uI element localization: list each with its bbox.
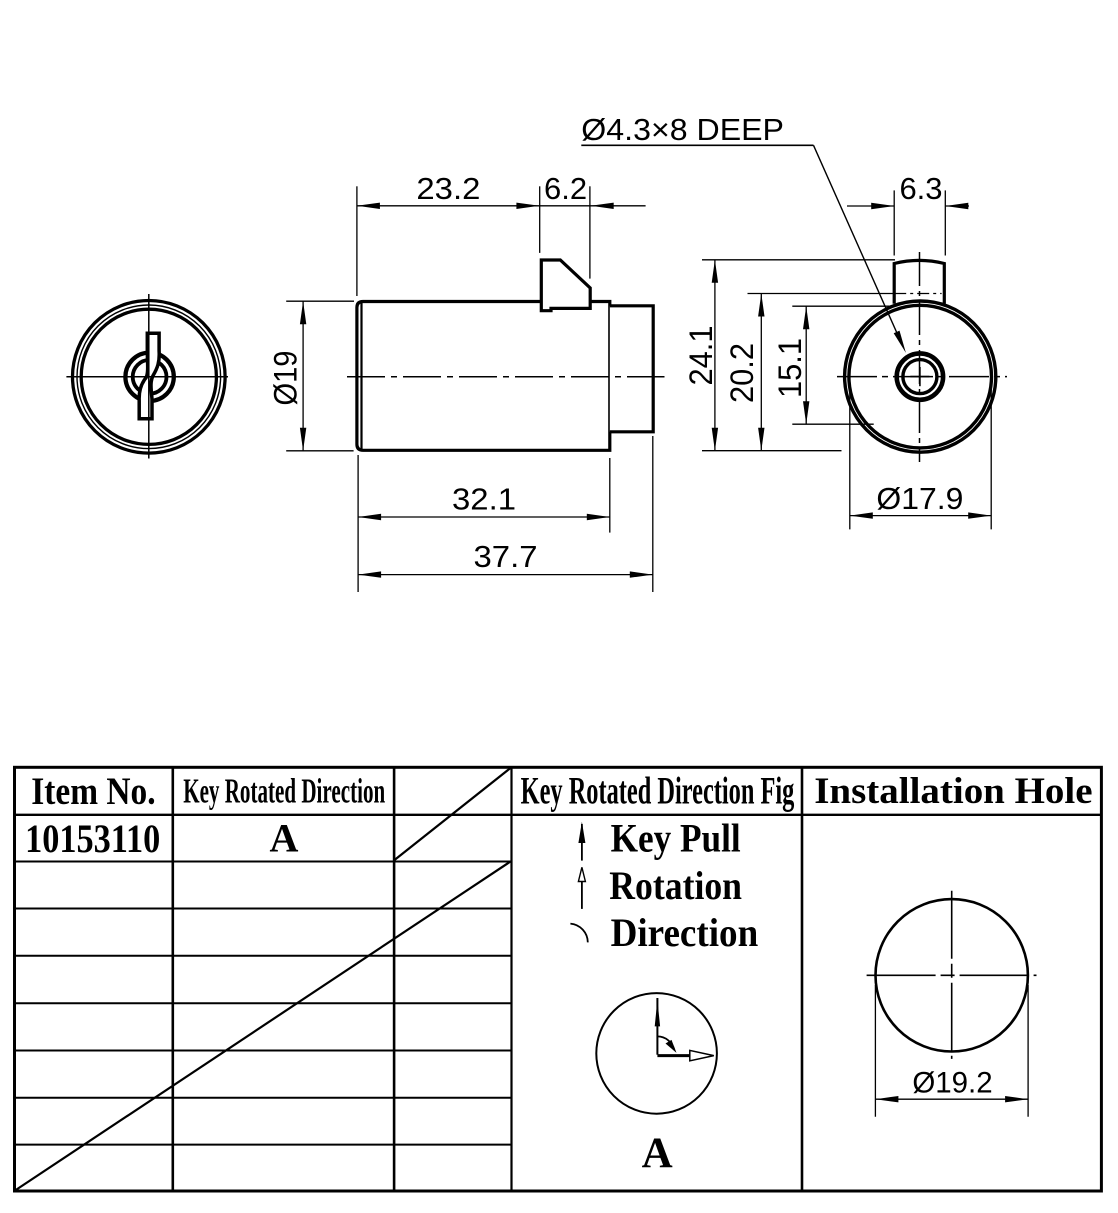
extension line left (32.1/37.7)	[357, 455, 359, 592]
extension line at body left (23.2)	[356, 186, 358, 296]
column border 4	[801, 767, 804, 1191]
arrowhead dia19 bottom	[300, 428, 306, 451]
extension line right (37.7)	[652, 436, 654, 592]
figure horizontal open arrowhead	[690, 1050, 714, 1060]
front view horizontal centerline	[66, 376, 228, 378]
side view cylinder body	[357, 302, 610, 451]
dimension line 20.2	[760, 294, 762, 451]
dimension line 6.3 right tail	[945, 205, 969, 207]
column border 1	[172, 767, 175, 1191]
svg-text:Key Rotated Direction Fig: Key Rotated Direction Fig	[521, 770, 795, 813]
rear view vertical centerline	[919, 252, 921, 462]
arrowhead 24.1 top	[712, 260, 718, 283]
svg-text:Rotation: Rotation	[609, 863, 742, 908]
figure vertical arrow line	[656, 998, 658, 1055]
installation hole vertical centerline	[951, 891, 953, 1059]
svg-text:Direction: Direction	[611, 910, 759, 955]
extension line at cam left (23.2/6.2)	[539, 186, 541, 253]
dimension line dia17.9	[850, 515, 991, 517]
rear view horizontal centerline	[837, 376, 1007, 378]
side view locking cam	[541, 260, 590, 311]
row line 2	[15, 861, 512, 863]
arrowhead 37.7 left	[358, 571, 381, 577]
extension line bottom (dia19)	[286, 450, 353, 452]
leader underline	[581, 144, 813, 146]
arrowhead 15.1 bottom	[803, 401, 809, 424]
svg-text:32.1: 32.1	[452, 481, 516, 516]
row line 6	[15, 1050, 512, 1052]
key pull arrow (solid)	[581, 824, 583, 861]
svg-text:Key Pull: Key Pull	[611, 816, 741, 861]
arrowhead 32.1 right	[587, 514, 610, 520]
row line 3	[15, 908, 512, 910]
extension line 6.3 left	[893, 190, 895, 255]
svg-text:A: A	[642, 1130, 673, 1177]
installation hole horizontal centerline	[867, 974, 1037, 976]
extension line 6.3 right	[944, 190, 946, 255]
svg-text:Ø17.9: Ø17.9	[876, 481, 963, 516]
extension line at cam right (6.2)	[589, 186, 591, 278]
figure vertical arrowhead (solid)	[655, 1000, 660, 1026]
arrowhead 20.2 top	[758, 294, 764, 317]
front view outer flange circle	[73, 301, 226, 454]
arrowhead dia19.2 left	[875, 1096, 898, 1102]
figure rotation arc	[657, 1036, 674, 1050]
rotation arrow (open)	[581, 878, 583, 909]
arrowhead dia19.2 right	[1005, 1096, 1028, 1102]
short diagonal slash	[395, 768, 511, 860]
dimension line 37.7	[358, 574, 653, 576]
figure horizontal arrow line	[657, 1054, 692, 1057]
key slot (S-shaped way)	[139, 333, 159, 418]
dimension line 6.3 left tail	[847, 205, 894, 207]
svg-text:24.1: 24.1	[683, 326, 719, 386]
side view body front edge line	[360, 303, 362, 450]
svg-text:Ø19: Ø19	[268, 351, 304, 406]
extension line dia19.2 right	[1027, 985, 1029, 1117]
dimension line 23.2 / 6.2	[357, 205, 646, 207]
leader arrowhead	[894, 331, 906, 353]
svg-text:Installation Hole: Installation Hole	[814, 771, 1092, 812]
extension line 20.2 top	[748, 293, 895, 295]
long diagonal slash	[15, 862, 511, 1191]
leader line	[814, 145, 903, 345]
arrowhead 15.1 top	[803, 306, 809, 329]
arrowhead dia17.9 left	[850, 512, 873, 518]
dimension line 15.1	[805, 306, 807, 424]
extension line dia17.9 right	[990, 380, 992, 529]
arrowhead 23.2 left	[357, 203, 380, 209]
arrowhead 24.1 bottom	[712, 428, 718, 451]
dimension line dia19.2	[875, 1098, 1028, 1100]
arrowhead 6.3 left	[871, 203, 894, 209]
direction arc symbol	[570, 924, 587, 943]
arrowhead dia19 top	[300, 301, 306, 324]
figure arc arrowhead	[666, 1040, 677, 1053]
extension line 15.1 bottom	[792, 423, 873, 425]
installation hole circle	[876, 899, 1028, 1051]
row line 8	[15, 1144, 512, 1146]
arrowhead 6.3 right	[945, 203, 968, 209]
svg-text:23.2: 23.2	[416, 171, 480, 206]
column border 3	[510, 767, 512, 1191]
svg-text:Ø4.3×8 DEEP: Ø4.3×8 DEEP	[581, 112, 784, 147]
svg-text:6.3: 6.3	[899, 171, 942, 206]
row line 4	[15, 955, 512, 957]
dimension line 24.1	[714, 260, 716, 451]
extension line 24.1/20.2 bottom	[702, 450, 842, 452]
row line 5	[15, 1002, 512, 1004]
svg-text:Ø19.2: Ø19.2	[912, 1067, 992, 1100]
front view vertical centerline	[148, 294, 150, 459]
arrowhead 6.2 right (outside)	[591, 203, 614, 209]
keyhole plug outer circle	[125, 353, 173, 401]
arrowhead dia17.9 right	[968, 512, 991, 518]
table outer border	[15, 767, 1102, 1191]
front view middle ring (thin)	[77, 305, 221, 449]
header row line	[15, 814, 1102, 816]
svg-text:6.2: 6.2	[544, 171, 587, 206]
svg-text:Key Rotated Direction: Key Rotated Direction	[183, 772, 385, 811]
side view horizontal centerline (dash-dot)	[347, 376, 665, 378]
extension line top (dia19)	[286, 300, 354, 302]
rear center hole inner circle	[903, 360, 937, 394]
extension line dia17.9 left	[849, 380, 851, 529]
rear center hole outer circle	[897, 353, 943, 399]
extension line dia19.2 left	[874, 985, 876, 1117]
center hole cross horizontal	[910, 376, 929, 378]
dimension line dia19	[302, 301, 304, 451]
keyhole plug inner circle	[133, 360, 167, 394]
rear view inner circle	[849, 305, 992, 448]
arrowhead 32.1 left	[358, 514, 381, 520]
svg-text:10153110: 10153110	[25, 816, 160, 861]
column border 2	[393, 767, 396, 1191]
center hole cross vertical	[919, 367, 921, 386]
extension line 24.1 top	[702, 259, 895, 261]
extension line right (32.1)	[609, 458, 611, 533]
rear cam tab	[894, 260, 944, 303]
svg-text:20.2: 20.2	[724, 343, 760, 403]
side view rear plug section	[610, 306, 653, 432]
row line 7	[15, 1097, 512, 1099]
svg-text:A: A	[270, 816, 299, 861]
svg-text:15.1: 15.1	[772, 338, 808, 398]
direction figure circle	[596, 993, 717, 1114]
svg-text:37.7: 37.7	[474, 539, 538, 574]
tab dash-dot line	[894, 293, 941, 295]
front view inner face circle	[81, 309, 216, 444]
arrowhead 20.2 bottom	[758, 428, 764, 451]
dimension line 32.1	[358, 516, 610, 518]
rear view outer circle	[845, 301, 996, 452]
svg-text:Item No.: Item No.	[31, 770, 155, 813]
arrowhead 23.2 right	[516, 203, 539, 209]
arrowhead 37.7 right	[630, 571, 653, 577]
extension line 15.1 top	[792, 305, 894, 307]
